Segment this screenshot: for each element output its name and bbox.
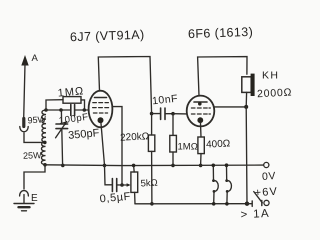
- svg-text:0V: 0V: [262, 170, 277, 183]
- wire coil bottom to earth branch: [24, 165, 45, 189]
- wire grid row left: [46, 109, 70, 111]
- wire V2 cathode to 400Ω: [200, 123, 203, 137]
- node coil tap junction: [43, 141, 47, 145]
- potentiometer 5kΩ body: [131, 172, 138, 192]
- svg-text:220kΩ: 220kΩ: [120, 131, 150, 144]
- svg-text:5kΩ: 5kΩ: [140, 178, 158, 190]
- node variable cap bottom: [61, 164, 65, 168]
- node screen/speaker junction: [244, 105, 248, 109]
- wire V2 screen lead: [214, 106, 246, 108]
- tube V2 plate blob: [198, 102, 202, 106]
- earth socket: [20, 191, 29, 196]
- switch to +6V terminal: [247, 192, 262, 207]
- node 220k at +6V rail: [150, 202, 154, 206]
- heater loop 2: [225, 163, 232, 205]
- node grid junction: [83, 108, 87, 112]
- wire V1 plate to top rail and down to coupling node: [98, 57, 151, 114]
- svg-text:1MΩ: 1MΩ: [178, 142, 198, 153]
- node V2 grid junction: [171, 112, 175, 116]
- tube V1 cathode dot: [98, 117, 104, 123]
- node 1MΩ at 0V rail: [171, 164, 175, 168]
- resistor 220kΩ plate load: [148, 114, 154, 204]
- node pot top at rail: [132, 164, 136, 168]
- tube V2 cathode dot: [197, 117, 203, 123]
- tube V1 plate bar: [95, 97, 107, 99]
- ground symbol E: [14, 193, 38, 211]
- node coil top junction: [44, 108, 48, 112]
- wire V2 plate to top rail to speaker: [198, 57, 247, 96]
- wire antenna lead-in: [24, 64, 25, 118]
- resistor 1MΩ grid V2: [170, 114, 177, 166]
- variable capacitor 350pF: [56, 110, 68, 165]
- wire resistor right to grid node: [81, 100, 85, 110]
- svg-text:1MΩ: 1MΩ: [57, 85, 84, 99]
- wire speaker to screen junction: [245, 92, 247, 107]
- svg-text:400Ω: 400Ω: [206, 138, 231, 150]
- resistor 400Ω cathode: [198, 137, 204, 154]
- svg-text:+6V: +6V: [254, 186, 278, 200]
- node V1 cathode at rail: [103, 164, 107, 168]
- svg-text:> 1A: > 1A: [240, 208, 270, 222]
- svg-text:25W: 25W: [23, 150, 42, 161]
- svg-text:KH: KH: [262, 70, 279, 82]
- heater loop 1: [212, 164, 219, 206]
- wire coil top to grid resistor: [46, 100, 63, 110]
- antenna socket cup: [20, 127, 28, 132]
- wire +6V rail: [135, 203, 247, 205]
- wire plug to coil tap: [24, 133, 44, 143]
- wire cap to tube grid: [75, 109, 89, 111]
- antenna terminal A (arrow): [21, 53, 38, 66]
- tube V1 grid dashes: [93, 103, 109, 113]
- wire V1 screen lead: [112, 107, 122, 185]
- wire pot top to 0V rail: [133, 165, 136, 172]
- tube V1 6J7 envelope: [89, 91, 113, 128]
- node coupling junction: [150, 112, 154, 116]
- antenna plug pin: [22, 119, 25, 127]
- tube V2 6F6 envelope: [187, 96, 215, 127]
- potentiometer 5kΩ wiper arrow: [122, 184, 129, 186]
- wire socket to ground: [23, 195, 25, 204]
- wire 400Ω to 0V rail: [200, 154, 202, 166]
- svg-text:E: E: [31, 193, 38, 204]
- svg-text:2000Ω: 2000Ω: [257, 86, 293, 100]
- tube V2 plate bar: [194, 101, 207, 103]
- svg-text:A: A: [32, 53, 39, 64]
- wire grid junction to tube V2: [173, 113, 187, 115]
- wire speaker line down to +6V rail: [245, 107, 248, 204]
- coil L1 (95W + 25W windings): [41, 110, 46, 165]
- svg-text:6J7 (VT91A): 6J7 (VT91A): [70, 28, 145, 45]
- node 400Ω at rail: [199, 164, 203, 168]
- resistor 1MΩ grid leak (box): [63, 97, 81, 104]
- node variable cap tap: [59, 108, 63, 112]
- wire 0V rail: [45, 164, 264, 167]
- capacitor 100pF (bars): [70, 105, 72, 116]
- speaker KH 2000Ω: [242, 74, 255, 96]
- node coil bottom junction: [43, 163, 47, 167]
- node +6V rail end: [245, 202, 249, 206]
- capacitor 10nF coupling: [152, 108, 173, 119]
- tube V2 grid dashes: [191, 108, 210, 114]
- terminal +6V: [264, 200, 269, 205]
- node screen network junction: [120, 183, 124, 187]
- wire pot bottom to +6V rail: [134, 192, 136, 203]
- svg-text:6F6 (1613): 6F6 (1613): [188, 25, 254, 41]
- capacitor 0.5µF screen bypass: [105, 165, 123, 191]
- terminal 0V: [264, 162, 269, 167]
- svg-text:95W: 95W: [27, 114, 47, 125]
- wire V1 cathode to 0V rail: [101, 123, 105, 165]
